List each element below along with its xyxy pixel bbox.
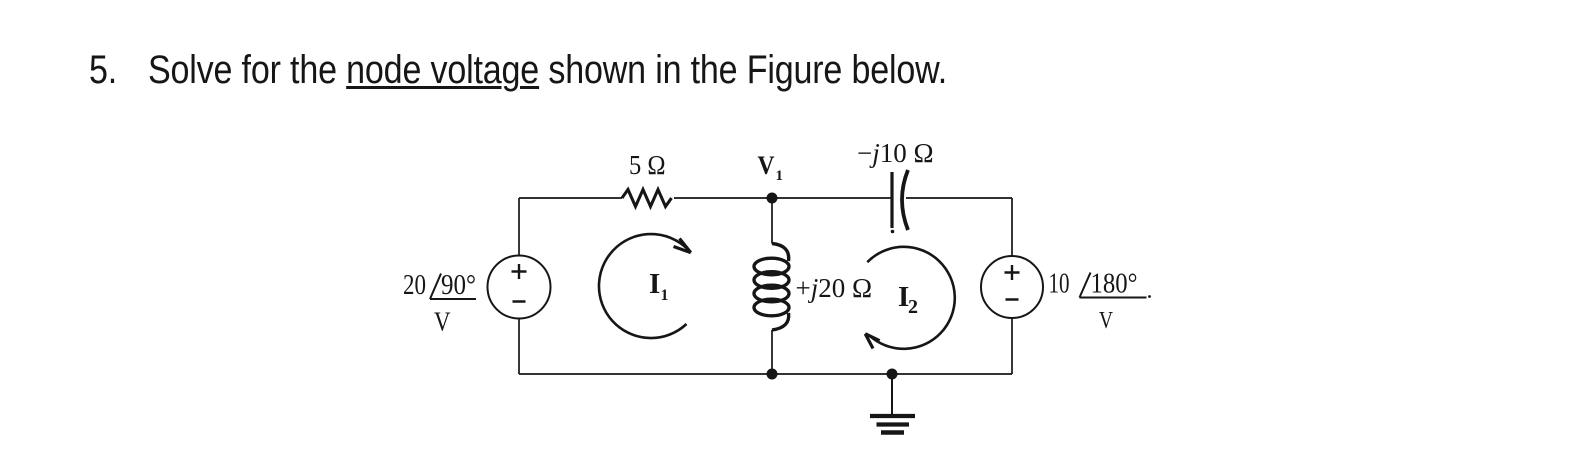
svg-text:5 Ω: 5 Ω	[629, 150, 666, 180]
svg-text:2: 2	[908, 296, 918, 318]
svg-text:I: I	[649, 268, 660, 300]
svg-text:90°: 90°	[441, 270, 476, 301]
svg-text:10: 10	[1049, 269, 1070, 300]
svg-text:20: 20	[403, 270, 426, 301]
svg-text:+j20 Ω: +j20 Ω	[796, 273, 873, 303]
svg-text:V: V	[434, 307, 451, 337]
svg-text:V: V	[758, 151, 775, 180]
svg-text:1: 1	[661, 287, 669, 304]
svg-text:−j10 Ω: −j10 Ω	[857, 138, 934, 168]
svg-text:180°: 180°	[1091, 269, 1138, 300]
svg-text:1: 1	[776, 168, 784, 184]
svg-text:V: V	[1099, 308, 1114, 334]
